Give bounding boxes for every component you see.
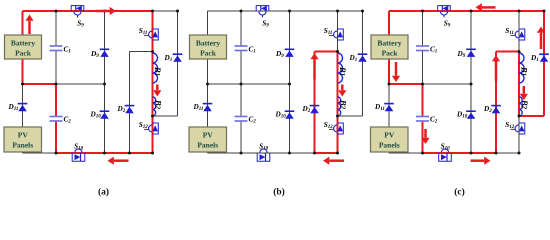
winding B1 (phase coil upper): [338, 53, 343, 83]
wire C1 column lower (c): [422, 51, 424, 85]
wire D2 branch top link (c): [496, 50, 519, 52]
wire bottom rail mid (b): [241, 152, 315, 154]
wire top rail right section to D1 branch (c): [519, 10, 544, 12]
capacitor C2: [235, 117, 248, 122]
node bottom rail / C2 junction (c): [421, 152, 424, 155]
switch S12: [144, 123, 158, 134]
diode D9: [100, 49, 110, 57]
node middle rail / D9-D10 junction (a): [103, 83, 106, 86]
wire top rail left section (a): [23, 10, 153, 12]
wire bottom rail far left (c): [389, 152, 423, 154]
node top rail / C1 junction (c): [421, 10, 424, 13]
current arrow winding (down): [153, 85, 161, 97]
capacitor C1: [416, 46, 429, 51]
wire D2 branch top link (a): [130, 51, 153, 53]
wire battery negative stub (c): [388, 59, 390, 84]
wire top rail right section to D1 branch (a): [153, 10, 178, 12]
wire PV bottom stub (b): [207, 152, 209, 153]
wire D11 branch (c): [388, 84, 390, 127]
node middle rail / C1-C2 junction (b): [240, 83, 243, 86]
current arrow winding (down): [520, 86, 528, 100]
wire D2 branch top link (b): [315, 50, 338, 52]
wire S12 leg (b): [336, 116, 338, 153]
switch S9: [71, 5, 84, 17]
wire bottom rail right (a): [130, 152, 153, 154]
switch S12: [329, 123, 343, 134]
wire D10 branch (b): [289, 84, 291, 153]
diode D10: [285, 111, 295, 119]
switch S9: [438, 5, 451, 17]
current arrow bottom rail (left): [323, 157, 344, 165]
current arrow bottom rail (left): [108, 157, 129, 165]
diode D2: [491, 106, 501, 114]
node node P2 winding bottom (b): [336, 115, 339, 118]
winding B1 (phase coil upper): [519, 53, 524, 83]
switch S11: [329, 29, 343, 40]
svg-text:Pack: Pack: [382, 49, 399, 58]
wire top rail left section (c): [389, 10, 519, 12]
switch S10: [72, 149, 85, 161]
switch S12: [510, 123, 524, 134]
wire bottom rail right (b): [315, 152, 338, 154]
diode D11: [203, 104, 213, 112]
wire D11 branch (a): [22, 84, 24, 127]
wire middle rail right (a): [56, 83, 105, 85]
wire battery positive stub (c): [388, 11, 390, 35]
wire S11 leg (c): [518, 11, 520, 52]
diode D1: [539, 54, 549, 62]
wire S11 leg (a): [151, 11, 153, 52]
wire D1 branch bottom link (c): [519, 115, 544, 117]
PV panels source (c): [371, 127, 409, 152]
wire D9 branch (a): [104, 11, 106, 84]
node top rail / D9 junction (a): [103, 10, 106, 13]
wire top rail right section to D1 branch (b): [338, 10, 363, 12]
svg-text:PV: PV: [384, 131, 395, 140]
node top rail / S11 junction (b): [336, 10, 339, 13]
wire D1 branch column (c): [543, 11, 545, 116]
node bottom rail / C2 junction (a): [55, 152, 58, 155]
wire bottom rail far left (a): [23, 152, 57, 154]
node top rail / S11 junction (a): [151, 10, 154, 13]
wire D2 branch column (c): [495, 52, 497, 154]
svg-text:Battery: Battery: [377, 39, 401, 48]
wire C2 column upper (a): [55, 84, 57, 117]
wire phase winding column (a): [151, 52, 153, 117]
wire phase winding column (c): [518, 52, 520, 117]
wire C2 column upper (c): [421, 84, 423, 117]
wire PV bottom stub (a): [22, 152, 24, 153]
svg-text:Pack: Pack: [15, 49, 32, 58]
node node P1 winding top (b): [336, 50, 339, 53]
diode D9: [466, 49, 476, 57]
node bottom rail / S12 junction (b): [336, 152, 339, 155]
svg-text:Panels: Panels: [197, 141, 218, 150]
wire middle rail right (c): [423, 83, 472, 85]
current arrow battery discharge (up): [25, 15, 33, 35]
wire C2 column lower (b): [240, 121, 242, 153]
wire bottom rail mid (a): [56, 152, 130, 154]
diode D1: [173, 54, 183, 62]
svg-text:Panels: Panels: [379, 141, 400, 150]
wire D10 branch (a): [104, 84, 106, 153]
wire C2 column lower (a): [55, 121, 57, 153]
svg-text:PV: PV: [18, 131, 29, 140]
wire D2 branch column (a): [129, 52, 131, 154]
diode D2: [125, 106, 135, 114]
node middle rail / C1-C2 junction (c): [421, 83, 424, 86]
switch S9: [256, 5, 269, 17]
svg-text:PV: PV: [203, 131, 214, 140]
wire PV bottom stub (c): [388, 152, 390, 153]
wire D11 branch (b): [207, 84, 209, 127]
wire D9 branch (b): [289, 11, 291, 84]
node middle rail / D9-D10 junction (b): [288, 83, 291, 86]
current arrow top rail (right): [96, 7, 116, 15]
wire bottom rail far left (b): [208, 152, 242, 154]
capacitor C2: [416, 117, 429, 122]
node middle rail / C1-C2 junction (a): [55, 83, 58, 86]
node middle rail / battery-D11 junction (a): [21, 83, 24, 86]
svg-text:Panels: Panels: [12, 141, 33, 150]
wire C1 column lower (b): [240, 51, 242, 85]
wire C1 column upper (b): [240, 11, 242, 46]
capacitor C1: [50, 46, 63, 51]
wire middle rail right (b): [241, 83, 290, 85]
node bottom rail / S12 junction (c): [518, 152, 521, 155]
node node P2 winding bottom (a): [151, 115, 154, 118]
node middle rail / battery-D11 junction (c): [388, 83, 391, 86]
diode D10: [100, 111, 110, 119]
svg-text:Battery: Battery: [11, 39, 35, 48]
node bottom rail / D10 junction (b): [288, 152, 291, 155]
wire C1 column upper (a): [55, 11, 57, 46]
current arrow winding (down): [338, 85, 346, 97]
diode D11: [18, 104, 28, 112]
wire C1 column upper (c): [422, 11, 424, 46]
winding B1 (phase coil upper): [153, 53, 158, 83]
svg-text:(a): (a): [98, 187, 109, 198]
current arrow bottom rail (right): [471, 157, 491, 165]
node bottom rail / D2 junction (b): [313, 152, 316, 155]
wire D1 branch bottom link (b): [338, 115, 363, 117]
node top rail / D9 junction (b): [288, 10, 291, 13]
wire battery negative stub (b): [207, 59, 209, 84]
diode D2: [310, 106, 320, 114]
wire C2 column lower (c): [421, 121, 423, 153]
wire bottom rail mid (c): [423, 152, 497, 154]
battery pack source (c): [371, 35, 408, 59]
wire D1 branch bottom link (a): [153, 115, 178, 117]
node top rail / C1 junction (b): [240, 10, 243, 13]
node top rail / D9 junction (c): [470, 10, 473, 13]
wire C1 column lower (a): [55, 51, 57, 85]
node bottom rail / D2 junction (c): [495, 152, 498, 155]
wire S12 leg (c): [518, 116, 520, 153]
node bottom rail / D10 junction (a): [103, 152, 106, 155]
wire bottom rail right (c): [496, 152, 519, 154]
current arrow D2 branch (up): [492, 55, 500, 81]
wire D10 branch (c): [470, 84, 472, 153]
node top rail / D1 corner junction (c): [543, 10, 546, 13]
current arrow D2 branch (up): [310, 53, 318, 80]
svg-text:(b): (b): [273, 187, 285, 198]
node top rail / C1 junction (a): [55, 10, 58, 13]
node bottom rail / D2 junction (a): [128, 152, 131, 155]
wire D2 branch column (b): [313, 52, 315, 154]
winding B2 (phase coil lower): [338, 97, 341, 116]
current arrow top rail (left): [476, 3, 496, 11]
node bottom rail / C2 junction (b): [240, 152, 243, 155]
wire middle rail left (c): [389, 83, 423, 85]
node bottom rail / D10 junction (c): [470, 152, 473, 155]
winding B2 (phase coil lower): [519, 97, 522, 116]
capacitor C2: [50, 117, 63, 122]
current arrow D1 branch (up): [537, 27, 545, 50]
diode D10: [466, 111, 476, 119]
switch S11: [510, 29, 524, 40]
PV panels source (b): [189, 127, 227, 152]
wire D1 branch column (a): [177, 11, 179, 116]
diode D11: [384, 104, 394, 112]
current arrow battery charging (down): [392, 62, 400, 82]
wire D9 branch (c): [470, 11, 472, 84]
node node P1 winding top (c): [518, 50, 521, 53]
wire S11 leg (b): [337, 11, 339, 52]
switch S10: [257, 149, 270, 161]
node top rail / D1 corner junction (a): [176, 10, 179, 13]
wire battery negative stub (a): [21, 59, 23, 84]
battery pack source (a): [5, 35, 42, 59]
wire S12 leg (a): [151, 116, 153, 153]
switch S11: [144, 29, 158, 40]
wire top rail left section (b): [208, 10, 338, 12]
wire D1 branch column (b): [362, 11, 364, 116]
wire middle rail left (b): [208, 83, 242, 85]
wire battery positive stub (b): [207, 11, 209, 35]
svg-text:Battery: Battery: [196, 39, 220, 48]
wire middle rail left (a): [23, 83, 57, 85]
node node P2 winding bottom (c): [518, 115, 521, 118]
diode D1: [358, 54, 368, 62]
svg-text:Pack: Pack: [200, 49, 217, 58]
capacitor C1: [235, 46, 248, 51]
wire battery positive stub (a): [21, 11, 23, 35]
node bottom rail / S12 junction (a): [151, 152, 154, 155]
node middle rail / battery-D11 junction (b): [206, 83, 209, 86]
wire phase winding column (b): [336, 52, 338, 117]
wire C2 column upper (b): [240, 84, 242, 117]
winding B2 (phase coil lower): [153, 97, 156, 116]
diode D9: [285, 49, 295, 57]
node middle rail / D9-D10 junction (c): [470, 83, 473, 86]
PV panels source (a): [4, 127, 42, 152]
current arrow C2 column (down): [421, 129, 429, 144]
svg-text:(c): (c): [454, 187, 465, 198]
battery pack source (b): [190, 35, 227, 59]
node top rail / D1 corner junction (b): [361, 10, 364, 13]
switch S10: [439, 149, 452, 161]
node top rail / S11 junction (c): [518, 10, 521, 13]
node node P1 winding top (a): [151, 50, 154, 53]
